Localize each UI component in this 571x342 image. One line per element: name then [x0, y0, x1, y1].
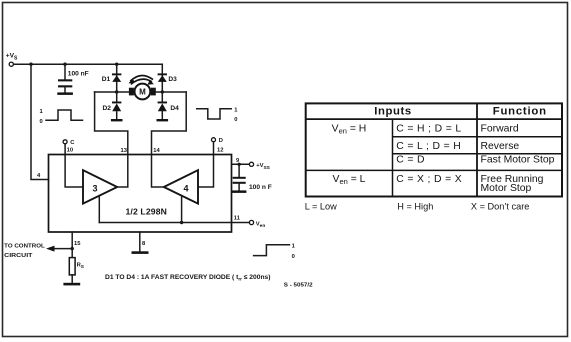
svg-text:D: D [219, 138, 223, 144]
svg-text:C = X ; D = X: C = X ; D = X [396, 174, 462, 185]
wire motor-left to pin 13 [95, 92, 128, 155]
wire amp3 enable [98, 196, 100, 223]
terminal C [63, 140, 75, 146]
svg-text:11: 11 [234, 216, 241, 222]
waveform Ven step [254, 243, 296, 260]
terminal +Vss [249, 162, 270, 171]
wire pin 12 [198, 142, 213, 187]
svg-text:10: 10 [67, 148, 73, 154]
ground (right cap) [232, 190, 246, 193]
svg-text:Inputs: Inputs [374, 105, 412, 117]
terminal D [212, 138, 223, 144]
waveform D input pulse [197, 107, 239, 123]
svg-text:Function: Function [493, 105, 547, 117]
wire pin 15 [71, 232, 73, 258]
svg-text:CIRCUIT: CIRCUIT [4, 253, 33, 259]
svg-text:D1: D1 [102, 76, 111, 83]
svg-text:Ven = L: Ven = L [333, 174, 366, 186]
IC box 1/2 L298N [49, 155, 232, 233]
svg-text:0: 0 [40, 119, 43, 125]
svg-text:0: 0 [292, 254, 295, 260]
svg-text:Reverse: Reverse [481, 141, 520, 152]
resistor Rs [69, 258, 84, 275]
svg-text:Fast Motor Stop: Fast Motor Stop [481, 155, 555, 166]
wire +Vs rail [14, 63, 163, 65]
svg-text:100 nF: 100 nF [68, 71, 89, 78]
svg-text:1/2 L298N: 1/2 L298N [126, 207, 167, 217]
svg-text:4: 4 [184, 183, 189, 193]
svg-text:0: 0 [234, 117, 237, 123]
ground (D2) [111, 119, 123, 121]
ground (D4) [157, 119, 169, 121]
node pin9 [237, 163, 240, 166]
table truth table [306, 103, 562, 196]
capacitor 100nF (right) [233, 164, 272, 191]
wire to pin 4 [31, 64, 49, 179]
amplifier 3 [83, 170, 117, 203]
diode D4 [158, 92, 180, 119]
wire pin 10 [65, 144, 83, 187]
ground (left cap) [57, 92, 73, 95]
wire enable rail to pin 11 [99, 222, 249, 224]
svg-text:15: 15 [74, 241, 81, 247]
node pin15 [71, 247, 74, 250]
terminal +Vs [6, 53, 18, 67]
motor M [129, 84, 156, 100]
svg-text:H = High: H = High [397, 201, 433, 211]
svg-text:C = H ; D = L: C = H ; D = L [396, 124, 461, 135]
wire pin 9 [232, 163, 250, 165]
ground (Rs) [63, 283, 80, 286]
svg-text:D2: D2 [103, 105, 112, 112]
wire pin14 to amp4 input [152, 155, 164, 188]
capacitor 100nF (left) [58, 64, 89, 92]
svg-text:C = L ; D = H: C = L ; D = H [396, 141, 461, 152]
svg-text:D1 TO D4 : 1A FAST RECOVERY DI: D1 TO D4 : 1A FAST RECOVERY DIODE ( trr … [105, 274, 271, 281]
node motor-right [161, 90, 164, 93]
svg-text:3: 3 [93, 183, 98, 193]
svg-text:C = D: C = D [396, 155, 425, 166]
svg-text:Ven = H: Ven = H [332, 124, 367, 136]
svg-text:M: M [139, 88, 146, 97]
wire motor rail [95, 91, 187, 93]
svg-text:X = Don’t care: X = Don’t care [471, 201, 529, 211]
wire arrow to control circuit [53, 248, 72, 250]
wire motor-right to pin 14 [152, 92, 187, 155]
svg-text:Motor Stop: Motor Stop [481, 183, 532, 194]
wire pin13 to amp3 output [117, 155, 128, 188]
wire pin 8 [139, 232, 141, 251]
terminal Ven [249, 220, 265, 228]
ground (pin 8) [132, 251, 149, 254]
node rail-D1 [115, 62, 118, 65]
wire Rs to ground [71, 275, 73, 283]
rotation arrows [128, 75, 154, 84]
amplifier 4 [164, 170, 198, 203]
diode D2 [103, 92, 122, 119]
svg-text:14: 14 [153, 148, 160, 154]
wire amp4 enable [181, 196, 183, 223]
waveform C input pulse [40, 109, 83, 125]
node enable [180, 221, 183, 224]
svg-text:S - 5057/2: S - 5057/2 [284, 283, 313, 289]
node motor-left [115, 90, 118, 93]
svg-text:13: 13 [121, 148, 128, 154]
node rail-cap [63, 62, 66, 65]
svg-text:L = Low: L = Low [305, 201, 337, 211]
svg-text:100 n F: 100 n F [249, 184, 272, 191]
svg-text:D4: D4 [170, 105, 179, 112]
node rail-left [29, 62, 32, 65]
svg-text:TO CONTROL: TO CONTROL [4, 243, 45, 249]
svg-text:Forward: Forward [481, 124, 519, 135]
diode D3 [158, 64, 178, 92]
diode D1 [102, 64, 122, 92]
svg-text:12: 12 [217, 147, 223, 153]
svg-text:D3: D3 [168, 76, 177, 83]
